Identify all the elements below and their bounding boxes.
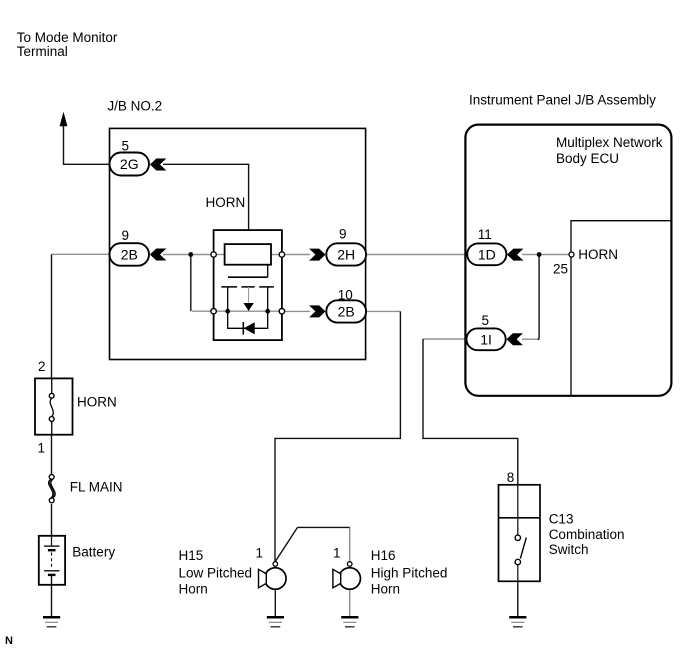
svg-text:High Pitched: High Pitched [371,566,448,581]
svg-text:10: 10 [338,288,353,303]
svg-text:J/B NO.2: J/B NO.2 [107,99,162,114]
svg-text:Instrument Panel J/B Assembly: Instrument Panel J/B Assembly [469,93,656,108]
svg-text:8: 8 [507,470,515,485]
svg-text:2B: 2B [338,304,355,320]
svg-text:HORN: HORN [578,247,618,262]
svg-text:Low Pitched: Low Pitched [179,566,253,581]
svg-text:Battery: Battery [72,545,115,560]
svg-text:1: 1 [333,546,341,561]
svg-text:H16: H16 [371,548,396,563]
svg-text:9: 9 [339,227,347,242]
svg-text:Multiplex Network: Multiplex Network [556,135,663,150]
svg-text:Terminal: Terminal [17,44,68,59]
svg-text:2: 2 [38,359,46,374]
svg-text:2B: 2B [121,247,138,263]
svg-text:Body ECU: Body ECU [556,151,619,166]
svg-text:2G: 2G [120,156,139,172]
svg-text:25: 25 [553,262,568,277]
svg-text:2H: 2H [337,247,355,263]
svg-text:9: 9 [122,228,130,243]
svg-text:5: 5 [122,139,130,154]
svg-text:HORN: HORN [77,395,117,410]
svg-text:FL MAIN: FL MAIN [70,480,123,495]
svg-text:Horn: Horn [371,582,400,597]
svg-text:1: 1 [38,441,46,456]
svg-text:HORN: HORN [206,195,246,210]
svg-text:Combination: Combination [549,527,625,542]
svg-text:C13: C13 [549,512,574,527]
svg-text:5: 5 [482,313,490,328]
svg-text:N: N [5,635,13,647]
svg-text:Horn: Horn [179,582,208,597]
svg-text:11: 11 [478,227,492,242]
svg-text:1: 1 [256,546,264,561]
svg-text:1D: 1D [478,246,496,262]
svg-text:Switch: Switch [549,542,589,557]
svg-text:To Mode Monitor: To Mode Monitor [17,30,118,45]
svg-text:H15: H15 [179,548,204,563]
svg-text:1I: 1I [480,331,492,347]
